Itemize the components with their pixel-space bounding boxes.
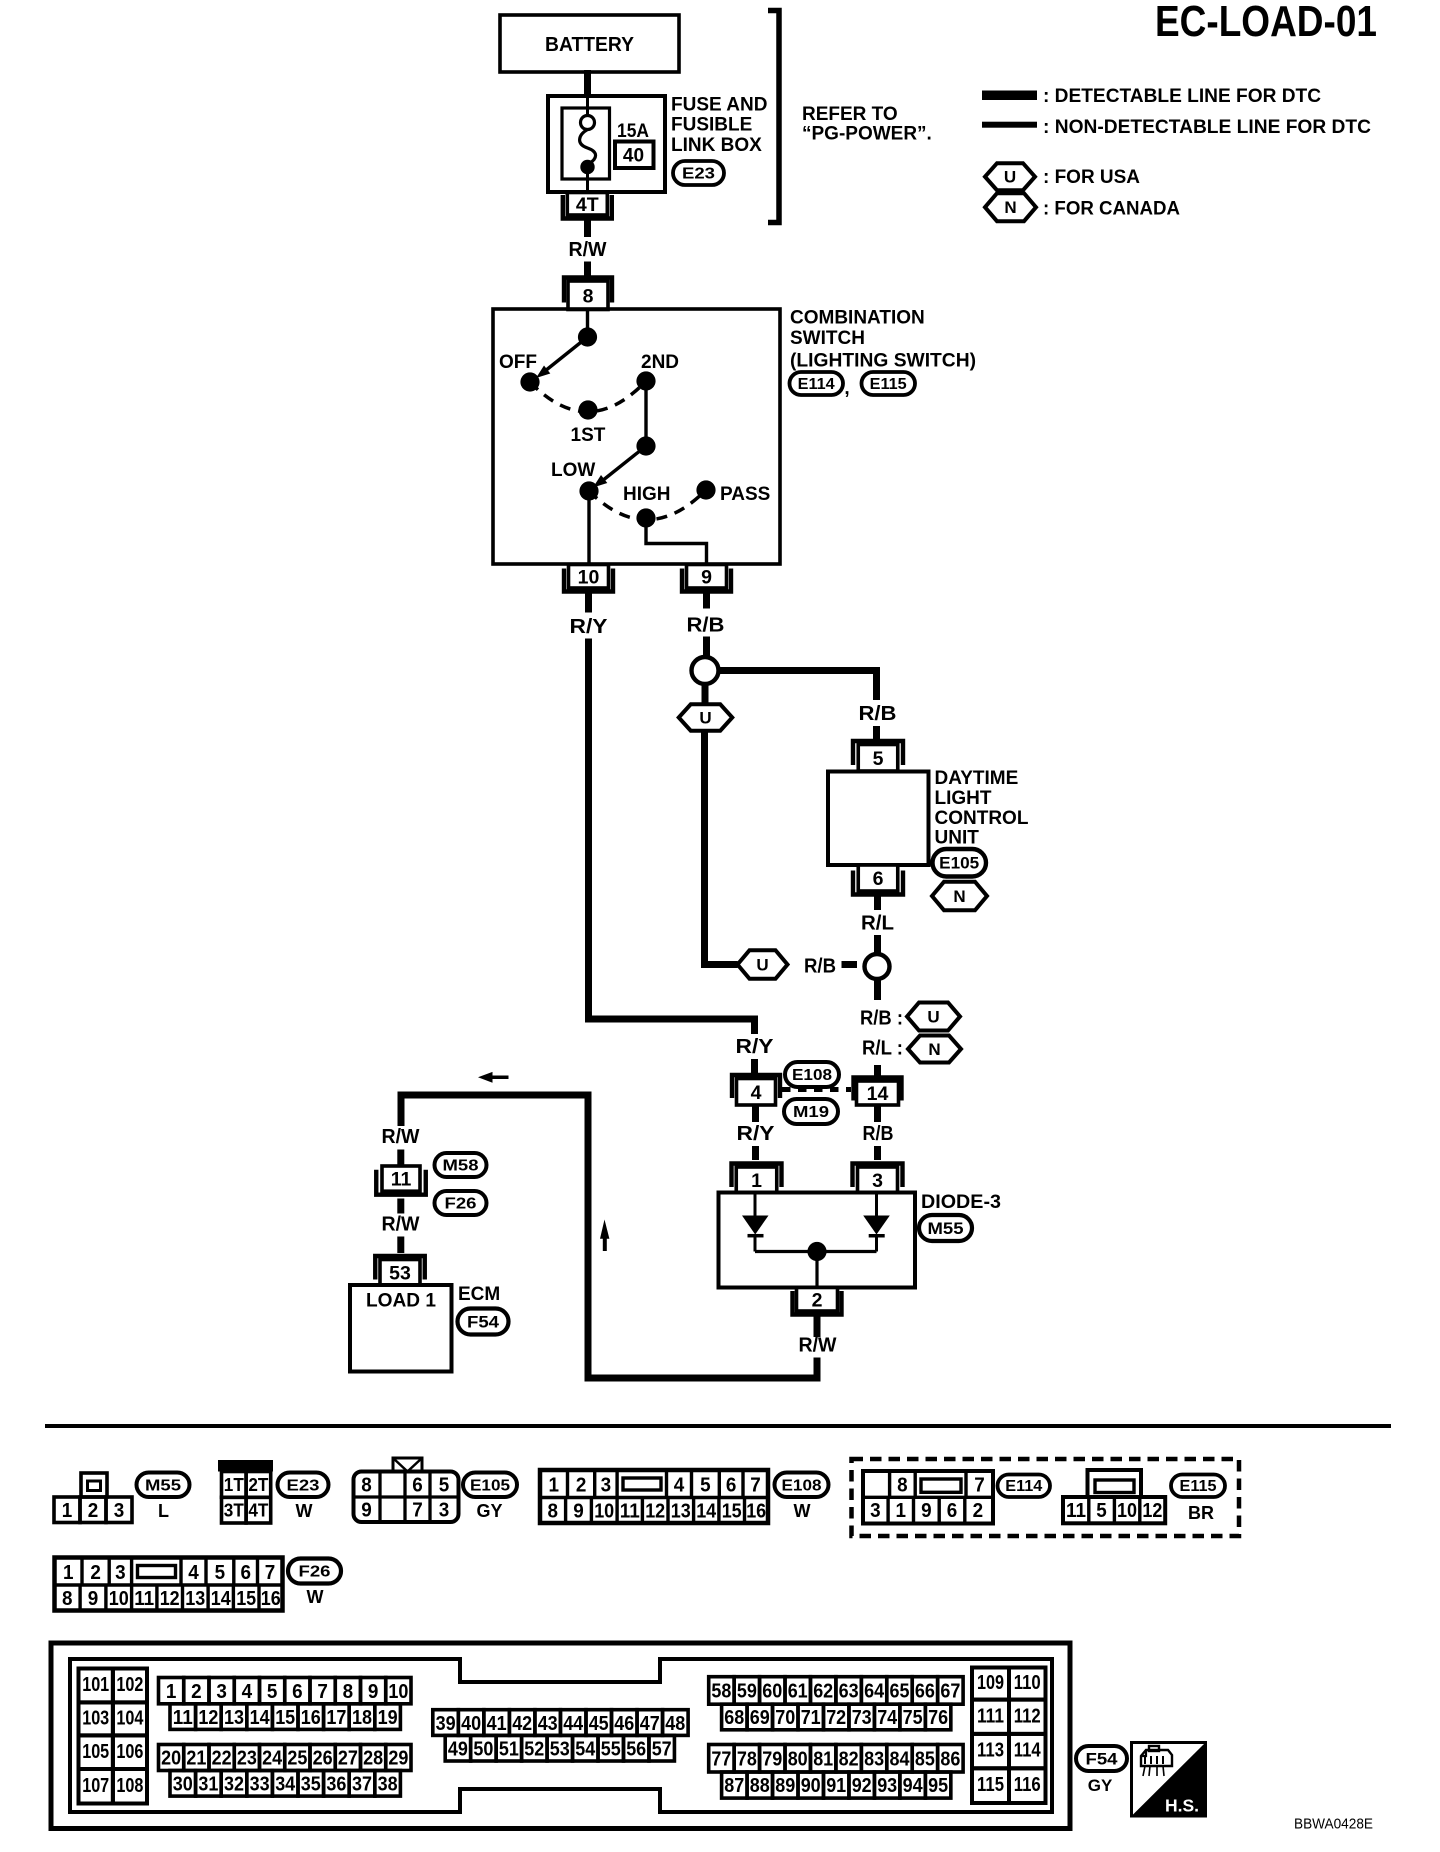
terminal 6 bbox=[853, 871, 903, 895]
svg-text:HIGH: HIGH bbox=[623, 484, 671, 505]
svg-text:10: 10 bbox=[109, 1588, 129, 1610]
svg-text:116: 116 bbox=[1014, 1774, 1041, 1796]
svg-text:1: 1 bbox=[896, 1500, 907, 1522]
svg-text:56: 56 bbox=[626, 1738, 646, 1760]
svg-text:79: 79 bbox=[762, 1749, 782, 1771]
svg-text:115: 115 bbox=[977, 1774, 1004, 1796]
contact PASS bbox=[696, 480, 715, 499]
terminal 10 bbox=[564, 569, 613, 592]
svg-text:41: 41 bbox=[487, 1713, 507, 1735]
svg-text:12: 12 bbox=[645, 1501, 665, 1523]
svg-text:71: 71 bbox=[801, 1707, 821, 1729]
daytime light control unit box E105 bbox=[828, 772, 929, 866]
connector label M55 bbox=[919, 1215, 972, 1241]
svg-text:1: 1 bbox=[751, 1170, 762, 1192]
svg-text:53: 53 bbox=[389, 1262, 411, 1284]
pivot contact bbox=[636, 436, 655, 455]
svg-text:“PG-POWER”.: “PG-POWER”. bbox=[802, 124, 932, 145]
svg-text:,: , bbox=[844, 378, 849, 399]
svg-text:2T: 2T bbox=[248, 1475, 268, 1495]
F54 pin rows 39-57 bbox=[433, 1710, 459, 1736]
svg-text:DIODE-3: DIODE-3 bbox=[921, 1192, 1001, 1213]
svg-text:40: 40 bbox=[461, 1713, 481, 1735]
svg-text:DAYTIME: DAYTIME bbox=[935, 768, 1019, 789]
svg-text:11: 11 bbox=[391, 1169, 412, 1191]
svg-text:E108: E108 bbox=[792, 1067, 832, 1084]
svg-text:4: 4 bbox=[674, 1475, 685, 1497]
svg-text:104: 104 bbox=[116, 1708, 144, 1730]
svg-text:W: W bbox=[794, 1501, 811, 1521]
legend N hexagon FOR CANADA bbox=[985, 193, 1036, 221]
svg-text:7: 7 bbox=[974, 1475, 985, 1497]
svg-text:49: 49 bbox=[448, 1738, 468, 1760]
svg-text:(LIGHTING SWITCH): (LIGHTING SWITCH) bbox=[790, 351, 976, 372]
svg-text:16: 16 bbox=[261, 1588, 281, 1610]
U hexagon below junction bbox=[702, 684, 709, 705]
svg-text:N: N bbox=[953, 887, 965, 906]
svg-text:OFF: OFF bbox=[499, 352, 537, 373]
svg-text:21: 21 bbox=[186, 1748, 206, 1770]
svg-text:90: 90 bbox=[801, 1775, 821, 1797]
svg-text:105: 105 bbox=[82, 1741, 109, 1763]
svg-text:5: 5 bbox=[267, 1681, 278, 1703]
wire R/B to diode terminal 3 bbox=[874, 1105, 881, 1122]
svg-text:3: 3 bbox=[439, 1500, 450, 1522]
svg-text:15: 15 bbox=[275, 1707, 295, 1729]
svg-text:3: 3 bbox=[114, 1500, 125, 1522]
svg-text:44: 44 bbox=[563, 1713, 584, 1735]
svg-text:85: 85 bbox=[915, 1749, 935, 1771]
connector label F26 bbox=[435, 1191, 487, 1215]
svg-text:81: 81 bbox=[813, 1749, 833, 1771]
svg-text:5: 5 bbox=[873, 748, 884, 770]
wire battery to fuse box bbox=[584, 70, 591, 97]
svg-text:67: 67 bbox=[940, 1681, 960, 1703]
svg-text:59: 59 bbox=[737, 1681, 757, 1703]
terminal 2 bbox=[793, 1291, 842, 1315]
svg-text:4T: 4T bbox=[248, 1501, 268, 1521]
connector label M58 bbox=[435, 1153, 487, 1177]
F54 pin rows 77-95 bbox=[709, 1745, 734, 1773]
svg-text:58: 58 bbox=[711, 1681, 731, 1703]
connector label E105 bbox=[933, 849, 987, 877]
wire USA branch down to U tag bbox=[705, 731, 738, 965]
svg-text:7: 7 bbox=[412, 1500, 423, 1522]
svg-text:114: 114 bbox=[1014, 1740, 1042, 1762]
svg-text:9: 9 bbox=[921, 1500, 932, 1522]
contact 2ND bbox=[636, 371, 655, 390]
svg-text:3: 3 bbox=[870, 1500, 881, 1522]
svg-text:8: 8 bbox=[583, 285, 594, 307]
svg-text:R/W: R/W bbox=[382, 1213, 421, 1236]
svg-text:R/L :: R/L : bbox=[862, 1037, 903, 1060]
svg-text:1ST: 1ST bbox=[571, 425, 606, 446]
svg-text:111: 111 bbox=[977, 1705, 1004, 1727]
contact 1ST bbox=[578, 400, 597, 419]
svg-text:BR: BR bbox=[1188, 1503, 1214, 1523]
svg-text:M55: M55 bbox=[145, 1477, 181, 1494]
svg-text:R/Y: R/Y bbox=[570, 615, 608, 638]
connector 4 bbox=[732, 1075, 780, 1098]
svg-text:24: 24 bbox=[262, 1748, 283, 1770]
svg-text:76: 76 bbox=[928, 1707, 948, 1729]
svg-text:37: 37 bbox=[352, 1774, 372, 1796]
svg-text:3: 3 bbox=[216, 1681, 227, 1703]
connector face F26 bbox=[55, 1558, 283, 1611]
svg-text:61: 61 bbox=[788, 1681, 808, 1703]
svg-text:1: 1 bbox=[549, 1475, 560, 1497]
svg-text:R/L: R/L bbox=[861, 912, 894, 935]
connector label F54 bbox=[458, 1309, 509, 1335]
svg-text:E105: E105 bbox=[470, 1477, 510, 1494]
legend detectable line sample bbox=[982, 91, 1037, 101]
svg-text:9: 9 bbox=[88, 1588, 99, 1610]
svg-text:34: 34 bbox=[275, 1774, 296, 1796]
svg-text:36: 36 bbox=[326, 1774, 346, 1796]
svg-text:12: 12 bbox=[198, 1707, 218, 1729]
svg-text:91: 91 bbox=[826, 1775, 846, 1797]
svg-text:U: U bbox=[1004, 168, 1016, 187]
svg-text:14: 14 bbox=[696, 1501, 717, 1523]
wire R/Y to diode terminal 1 bbox=[752, 1105, 759, 1122]
svg-text:42: 42 bbox=[512, 1713, 532, 1735]
svg-text:70: 70 bbox=[775, 1707, 795, 1729]
svg-text:33: 33 bbox=[250, 1774, 270, 1796]
connector label E108 bbox=[775, 1473, 829, 1498]
svg-text:2: 2 bbox=[88, 1500, 99, 1522]
svg-text:102: 102 bbox=[116, 1674, 143, 1696]
connector label M19 bbox=[784, 1099, 838, 1124]
svg-text:75: 75 bbox=[903, 1707, 923, 1729]
terminal 4T bbox=[563, 195, 612, 219]
connector label E105 bbox=[463, 1473, 517, 1498]
svg-text:53: 53 bbox=[550, 1738, 570, 1760]
connector face E105 bbox=[393, 1458, 422, 1472]
flow arrow left bbox=[492, 1076, 509, 1080]
svg-text:: FOR USA: : FOR USA bbox=[1043, 167, 1140, 188]
svg-text:10: 10 bbox=[578, 566, 600, 588]
svg-text:10: 10 bbox=[388, 1681, 408, 1703]
svg-text:50: 50 bbox=[473, 1738, 493, 1760]
svg-text:110: 110 bbox=[1014, 1672, 1041, 1694]
svg-text:5: 5 bbox=[700, 1475, 711, 1497]
terminal 8 bbox=[564, 278, 612, 303]
svg-text:3: 3 bbox=[115, 1562, 126, 1584]
svg-text:L: L bbox=[158, 1501, 169, 1521]
svg-text:BBWA0428E: BBWA0428E bbox=[1294, 1816, 1373, 1833]
junction circle R/L / R/B bbox=[865, 954, 890, 979]
svg-text:FUSE AND: FUSE AND bbox=[671, 95, 767, 116]
svg-text:40: 40 bbox=[623, 146, 644, 167]
svg-text:107: 107 bbox=[82, 1775, 109, 1797]
svg-text:10: 10 bbox=[594, 1501, 614, 1523]
svg-text:4: 4 bbox=[188, 1562, 199, 1584]
svg-text:UNIT: UNIT bbox=[935, 828, 980, 849]
svg-text:COMBINATION: COMBINATION bbox=[790, 308, 925, 329]
F54 pin rows 1-19 bbox=[159, 1678, 184, 1704]
svg-text:18: 18 bbox=[352, 1707, 372, 1729]
wire stub to junction circle bbox=[842, 961, 858, 968]
svg-text:LOW: LOW bbox=[551, 460, 595, 481]
terminal 1 bbox=[732, 1164, 782, 1188]
svg-text:32: 32 bbox=[224, 1774, 244, 1796]
svg-text:68: 68 bbox=[724, 1707, 744, 1729]
svg-text:14: 14 bbox=[211, 1588, 232, 1610]
svg-text:8: 8 bbox=[548, 1501, 559, 1523]
svg-text:72: 72 bbox=[826, 1707, 846, 1729]
svg-text:62: 62 bbox=[813, 1681, 833, 1703]
svg-text:12: 12 bbox=[160, 1588, 180, 1610]
svg-text:82: 82 bbox=[839, 1749, 859, 1771]
svg-text:38: 38 bbox=[378, 1774, 398, 1796]
svg-text:93: 93 bbox=[877, 1775, 897, 1797]
svg-text:W: W bbox=[296, 1501, 313, 1521]
svg-text:R/B: R/B bbox=[863, 1122, 894, 1145]
svg-text:74: 74 bbox=[877, 1707, 898, 1729]
svg-text:2: 2 bbox=[576, 1475, 587, 1497]
connector face E114 bbox=[863, 1471, 993, 1524]
H.S. data link logo bbox=[1132, 1743, 1206, 1817]
svg-text:F26: F26 bbox=[445, 1196, 477, 1213]
svg-text:9: 9 bbox=[368, 1681, 379, 1703]
svg-text:N: N bbox=[1004, 198, 1016, 217]
svg-text:5: 5 bbox=[1096, 1500, 1107, 1522]
svg-text:: NON-DETECTABLE LINE FOR DTC: : NON-DETECTABLE LINE FOR DTC bbox=[1043, 117, 1371, 138]
svg-text:7: 7 bbox=[317, 1681, 328, 1703]
svg-text:M19: M19 bbox=[793, 1104, 829, 1121]
svg-text:95: 95 bbox=[928, 1775, 948, 1797]
wire R/B from terminal 9 bbox=[703, 593, 710, 609]
wiper arrow to LOW bbox=[602, 446, 646, 481]
dashed arc LOW-HIGH-PASS bbox=[589, 490, 706, 520]
svg-text:6: 6 bbox=[726, 1475, 737, 1497]
svg-text:29: 29 bbox=[388, 1748, 408, 1770]
diode 2 bbox=[875, 1192, 878, 1216]
connector label M55 bbox=[137, 1473, 190, 1498]
svg-text:R/Y: R/Y bbox=[736, 1035, 774, 1058]
svg-text:52: 52 bbox=[524, 1738, 544, 1760]
svg-text:E114: E114 bbox=[798, 376, 835, 393]
svg-text:31: 31 bbox=[198, 1774, 218, 1796]
svg-text:GY: GY bbox=[476, 1501, 502, 1521]
svg-text:23: 23 bbox=[237, 1748, 257, 1770]
svg-text:12: 12 bbox=[1142, 1500, 1162, 1522]
svg-text:35: 35 bbox=[301, 1774, 321, 1796]
svg-text:51: 51 bbox=[499, 1738, 519, 1760]
svg-text:27: 27 bbox=[338, 1748, 358, 1770]
U hexagon inline bbox=[738, 950, 788, 979]
svg-text:: DETECTABLE LINE FOR DTC: : DETECTABLE LINE FOR DTC bbox=[1043, 86, 1321, 107]
N hexagon for canada bbox=[932, 882, 987, 911]
connector label E114 bbox=[790, 372, 844, 395]
svg-text:2: 2 bbox=[812, 1289, 823, 1311]
wire R/Y down and over to connector 4 bbox=[589, 639, 755, 1035]
svg-text:F26: F26 bbox=[299, 1564, 331, 1581]
svg-text:83: 83 bbox=[864, 1749, 884, 1771]
svg-text:14: 14 bbox=[250, 1707, 271, 1729]
svg-text:13: 13 bbox=[671, 1501, 691, 1523]
junction dot bbox=[807, 1242, 826, 1261]
wire R/B to daytime light control unit bbox=[719, 671, 877, 701]
svg-text:16: 16 bbox=[301, 1707, 321, 1729]
svg-text:92: 92 bbox=[852, 1775, 872, 1797]
svg-text:R/B: R/B bbox=[687, 614, 725, 637]
svg-text:47: 47 bbox=[640, 1713, 660, 1735]
svg-text:SWITCH: SWITCH bbox=[790, 328, 865, 349]
mating dotted line bbox=[782, 1087, 851, 1092]
svg-text:55: 55 bbox=[601, 1738, 621, 1760]
connector face E115 bbox=[1088, 1470, 1142, 1497]
legend non-detectable line sample bbox=[982, 122, 1037, 128]
svg-text:112: 112 bbox=[1014, 1705, 1041, 1727]
terminal 53 bbox=[375, 1256, 425, 1280]
svg-text:6: 6 bbox=[947, 1500, 958, 1522]
ECM box LOAD 1 bbox=[350, 1285, 452, 1372]
svg-text:8: 8 bbox=[62, 1588, 73, 1610]
battery bbox=[500, 15, 679, 72]
diode 1 bbox=[754, 1192, 757, 1216]
svg-text:U: U bbox=[756, 956, 768, 975]
svg-text:101: 101 bbox=[82, 1674, 109, 1696]
svg-text:113: 113 bbox=[977, 1740, 1004, 1762]
svg-text:E114: E114 bbox=[1005, 1478, 1042, 1495]
svg-text:R/B: R/B bbox=[859, 702, 897, 725]
svg-text:109: 109 bbox=[977, 1672, 1004, 1694]
svg-text:3: 3 bbox=[872, 1170, 883, 1192]
svg-text:4: 4 bbox=[751, 1082, 762, 1104]
svg-text:17: 17 bbox=[326, 1707, 346, 1729]
svg-text:E108: E108 bbox=[782, 1477, 822, 1494]
svg-text:BATTERY: BATTERY bbox=[545, 34, 635, 56]
svg-text:7: 7 bbox=[750, 1475, 761, 1497]
refer to PG-POWER bracket bbox=[768, 11, 779, 223]
svg-text:W: W bbox=[307, 1587, 324, 1607]
svg-text:60: 60 bbox=[762, 1681, 782, 1703]
junction circle R/B bbox=[692, 657, 719, 684]
svg-text:ECM: ECM bbox=[458, 1284, 500, 1305]
svg-text:11: 11 bbox=[1066, 1500, 1086, 1522]
svg-text:87: 87 bbox=[724, 1775, 744, 1797]
svg-text:9: 9 bbox=[701, 566, 712, 588]
fuse and fusible link box E23 bbox=[548, 96, 665, 192]
svg-text:E105: E105 bbox=[939, 854, 979, 873]
svg-text:13: 13 bbox=[185, 1588, 205, 1610]
connector label E23 bbox=[673, 161, 724, 185]
svg-text:LIGHT: LIGHT bbox=[935, 788, 992, 809]
svg-text:8: 8 bbox=[897, 1475, 908, 1497]
svg-text:8: 8 bbox=[361, 1475, 372, 1497]
svg-text:M58: M58 bbox=[443, 1158, 479, 1175]
svg-text:28: 28 bbox=[363, 1748, 383, 1770]
svg-text:4: 4 bbox=[242, 1681, 253, 1703]
connector label F26 bbox=[288, 1559, 341, 1584]
wire LOW to terminal 10 bbox=[587, 491, 590, 564]
wire R/W fuse to switch bbox=[584, 219, 591, 238]
svg-text:U: U bbox=[927, 1008, 939, 1027]
svg-text:6: 6 bbox=[412, 1475, 423, 1497]
svg-text:6: 6 bbox=[292, 1681, 303, 1703]
svg-text:R/B: R/B bbox=[804, 955, 836, 978]
connector 14 bbox=[854, 1078, 902, 1101]
connector face E23 bbox=[218, 1460, 273, 1472]
svg-text:64: 64 bbox=[864, 1681, 885, 1703]
svg-text:EC-LOAD-01: EC-LOAD-01 bbox=[1155, 0, 1377, 46]
svg-text:11: 11 bbox=[620, 1501, 640, 1523]
svg-text:9: 9 bbox=[361, 1500, 372, 1522]
fuse number 40 box bbox=[615, 142, 654, 169]
switch common contact bbox=[578, 327, 597, 346]
svg-text:2: 2 bbox=[90, 1562, 101, 1584]
svg-text:6: 6 bbox=[873, 868, 884, 890]
svg-text:3: 3 bbox=[601, 1475, 612, 1497]
svg-text:108: 108 bbox=[116, 1775, 143, 1797]
svg-text:PASS: PASS bbox=[720, 484, 770, 505]
svg-text:11: 11 bbox=[173, 1707, 193, 1729]
svg-text:26: 26 bbox=[313, 1748, 333, 1770]
contact OFF bbox=[520, 372, 539, 391]
connector label E108 bbox=[785, 1062, 839, 1087]
connector face E108 bbox=[540, 1470, 768, 1523]
svg-text:1T: 1T bbox=[224, 1475, 244, 1495]
svg-text:3T: 3T bbox=[224, 1501, 244, 1521]
F54 pin rows 58-76 bbox=[709, 1677, 734, 1705]
link 2ND to pivot bbox=[644, 381, 647, 446]
svg-text:89: 89 bbox=[775, 1775, 795, 1797]
svg-text:CONTROL: CONTROL bbox=[935, 808, 1029, 829]
connector label E23 bbox=[278, 1473, 329, 1498]
svg-text:66: 66 bbox=[915, 1681, 935, 1703]
svg-text:7: 7 bbox=[265, 1562, 276, 1584]
svg-text:M55: M55 bbox=[928, 1220, 964, 1238]
svg-text:15: 15 bbox=[236, 1588, 256, 1610]
svg-text:U: U bbox=[699, 709, 711, 728]
svg-text:88: 88 bbox=[750, 1775, 770, 1797]
svg-text:8: 8 bbox=[343, 1681, 354, 1703]
svg-text:20: 20 bbox=[161, 1748, 181, 1770]
svg-text:30: 30 bbox=[173, 1774, 193, 1796]
svg-text:E23: E23 bbox=[287, 1477, 320, 1494]
svg-text:10: 10 bbox=[1117, 1500, 1137, 1522]
svg-text:86: 86 bbox=[940, 1749, 960, 1771]
wire R/Y from terminal 10 bbox=[585, 593, 592, 613]
wire HIGH to terminal 9 bbox=[646, 518, 707, 564]
svg-text:5: 5 bbox=[215, 1562, 226, 1584]
terminal 9 bbox=[682, 569, 731, 592]
svg-text:11: 11 bbox=[134, 1588, 154, 1610]
combination switch (lighting switch) box bbox=[493, 309, 780, 564]
wire below junction to connector 14 bbox=[874, 979, 881, 1001]
separator rule bbox=[45, 1424, 1391, 1428]
svg-text:14: 14 bbox=[867, 1083, 889, 1105]
svg-text:E115: E115 bbox=[870, 376, 907, 393]
svg-text:19: 19 bbox=[378, 1707, 398, 1729]
svg-text:R/B :: R/B : bbox=[860, 1007, 903, 1030]
svg-text:25: 25 bbox=[287, 1748, 307, 1770]
wire into switch from terminal 8 bbox=[586, 309, 589, 332]
svg-text:: FOR CANADA: : FOR CANADA bbox=[1043, 199, 1180, 220]
svg-text:F54: F54 bbox=[467, 1313, 500, 1332]
svg-text:R/W: R/W bbox=[799, 1334, 838, 1357]
dashed group box E114/E115 bbox=[852, 1459, 1240, 1536]
svg-text:45: 45 bbox=[589, 1713, 609, 1735]
svg-text:48: 48 bbox=[665, 1713, 685, 1735]
diode-3 box M55 bbox=[719, 1193, 916, 1288]
svg-text:9: 9 bbox=[573, 1501, 584, 1523]
fusible link symbol 15A bbox=[586, 96, 589, 116]
F54 pin block 109-116 bbox=[972, 1668, 1009, 1700]
svg-text:R/W: R/W bbox=[382, 1125, 421, 1148]
svg-text:1: 1 bbox=[63, 1562, 74, 1584]
